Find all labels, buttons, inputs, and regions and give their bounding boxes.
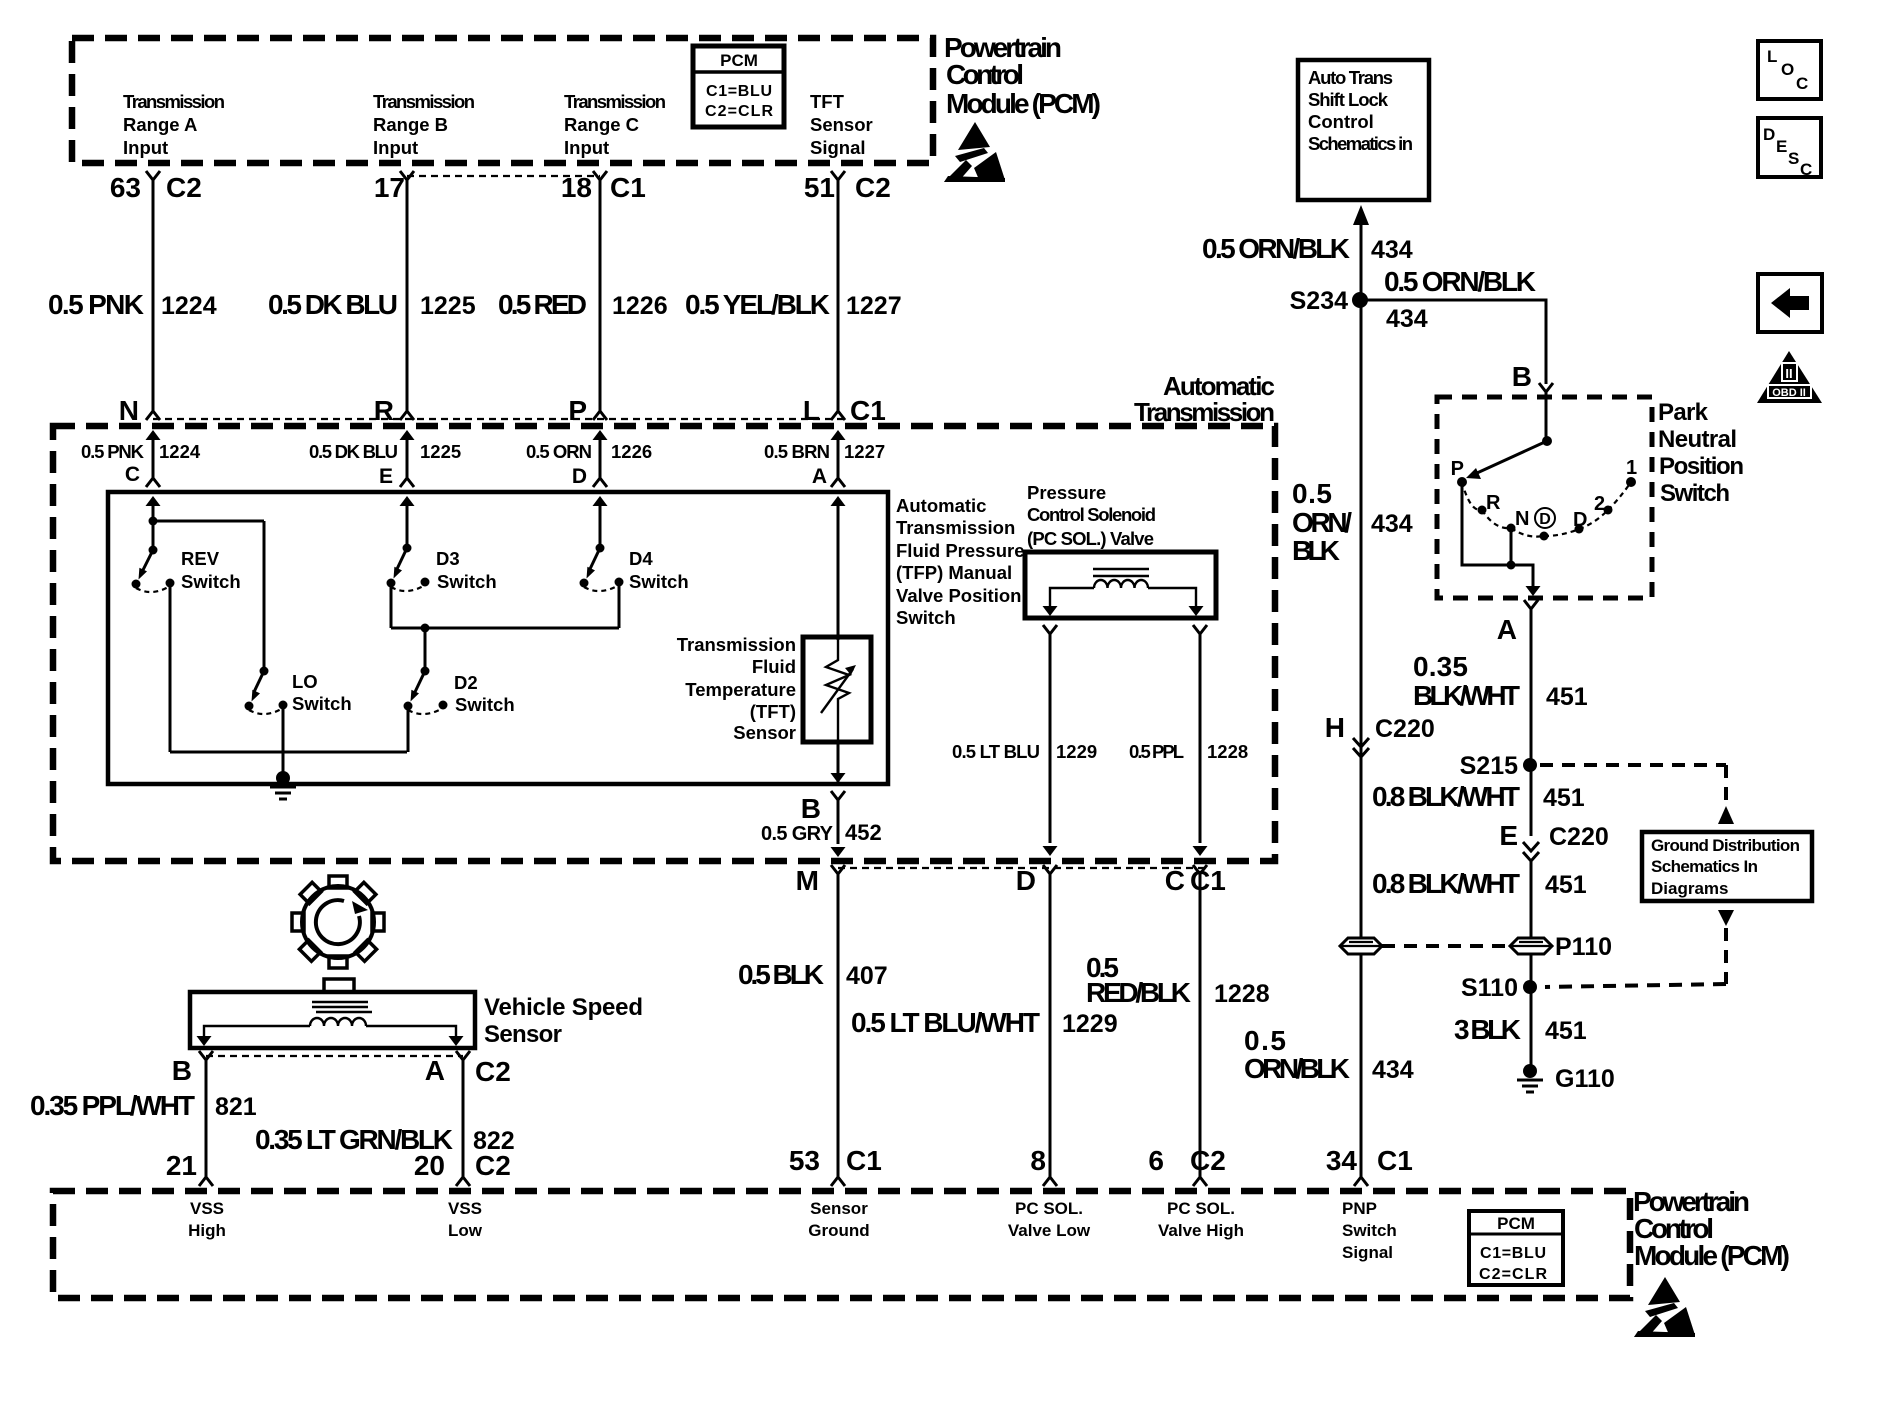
svg-text:Transmission: Transmission — [373, 91, 475, 112]
svg-text:1228: 1228 — [1207, 741, 1248, 762]
svg-text:Control: Control — [1308, 111, 1374, 132]
svg-text:B: B — [801, 793, 821, 824]
svg-text:0.5 BLK: 0.5 BLK — [738, 959, 824, 990]
svg-text:0.5 DK BLU: 0.5 DK BLU — [309, 441, 398, 462]
svg-text:0.5 ORN: 0.5 ORN — [526, 441, 592, 462]
svg-text:34: 34 — [1326, 1145, 1358, 1176]
svg-text:A: A — [425, 1055, 445, 1086]
svg-text:PCM: PCM — [1497, 1214, 1535, 1233]
svg-text:D: D — [1763, 125, 1775, 144]
svg-text:451: 451 — [1546, 683, 1588, 711]
svg-text:Neutral: Neutral — [1658, 426, 1737, 453]
svg-text:2: 2 — [1594, 493, 1605, 515]
svg-text:1226: 1226 — [612, 292, 668, 320]
svg-text:1225: 1225 — [420, 292, 476, 320]
svg-text:BLK: BLK — [1292, 535, 1340, 566]
svg-text:PC SOL.: PC SOL. — [1167, 1199, 1235, 1218]
svg-text:ORN/BLK: ORN/BLK — [1244, 1053, 1350, 1084]
svg-text:1: 1 — [1626, 457, 1637, 479]
svg-text:0.5 DK BLU: 0.5 DK BLU — [268, 289, 398, 320]
svg-text:0.5 GRY: 0.5 GRY — [761, 823, 834, 845]
svg-text:0.8 BLK/WHT: 0.8 BLK/WHT — [1372, 868, 1520, 899]
svg-text:C2=CLR: C2=CLR — [705, 103, 773, 120]
svg-text:High: High — [188, 1221, 226, 1240]
svg-text:C220: C220 — [1375, 715, 1435, 743]
svg-text:1226: 1226 — [611, 441, 652, 462]
svg-text:Schematics In: Schematics In — [1651, 857, 1758, 876]
svg-text:Transmission: Transmission — [896, 517, 1015, 538]
svg-text:0.5: 0.5 — [1244, 1025, 1286, 1056]
svg-text:PCM: PCM — [720, 51, 758, 70]
svg-text:D2: D2 — [454, 672, 478, 693]
svg-text:Input: Input — [123, 137, 168, 158]
svg-text:Shift Lock: Shift Lock — [1308, 89, 1389, 110]
svg-text:1227: 1227 — [846, 292, 902, 320]
svg-text:BLK/WHT: BLK/WHT — [1413, 680, 1520, 711]
svg-text:0.5 LT BLU/WHT: 0.5 LT BLU/WHT — [851, 1007, 1040, 1038]
svg-text:D: D — [1016, 865, 1036, 896]
svg-text:C2: C2 — [1190, 1145, 1226, 1176]
svg-text:PNP: PNP — [1342, 1199, 1377, 1218]
svg-text:434: 434 — [1371, 510, 1413, 538]
svg-text:C: C — [1796, 74, 1808, 93]
svg-text:B: B — [1512, 361, 1532, 392]
svg-text:451: 451 — [1545, 871, 1587, 899]
svg-text:407: 407 — [846, 962, 888, 990]
svg-text:451: 451 — [1543, 784, 1585, 812]
svg-text:II: II — [1785, 366, 1792, 381]
svg-text:D: D — [1539, 511, 1551, 528]
svg-text:451: 451 — [1545, 1017, 1587, 1045]
svg-text:Input: Input — [373, 137, 418, 158]
svg-text:Fluid: Fluid — [752, 656, 796, 677]
svg-text:Auto Trans: Auto Trans — [1308, 67, 1393, 88]
svg-text:(TFT): (TFT) — [750, 701, 796, 722]
svg-text:Ground: Ground — [808, 1221, 869, 1240]
svg-text:Sensor: Sensor — [484, 1021, 562, 1048]
svg-text:Vehicle Speed: Vehicle Speed — [484, 994, 643, 1021]
svg-text:RED/BLK: RED/BLK — [1086, 977, 1191, 1008]
svg-text:C1=BLU: C1=BLU — [1480, 1245, 1546, 1262]
svg-text:C2: C2 — [475, 1150, 511, 1181]
svg-text:Signal: Signal — [810, 137, 866, 158]
svg-text:P: P — [1451, 458, 1464, 480]
svg-text:C: C — [1800, 160, 1812, 179]
svg-text:N: N — [119, 395, 139, 426]
svg-text:0.35: 0.35 — [1413, 651, 1468, 682]
svg-text:D3: D3 — [436, 548, 460, 569]
svg-text:E: E — [379, 465, 393, 488]
svg-text:Switch: Switch — [896, 607, 956, 628]
svg-text:0.5 RED: 0.5 RED — [498, 289, 587, 320]
svg-text:Sensor: Sensor — [733, 722, 796, 743]
svg-text:C2: C2 — [855, 172, 891, 203]
svg-text:63: 63 — [110, 172, 141, 203]
svg-text:R: R — [374, 395, 394, 426]
svg-text:Switch: Switch — [292, 693, 352, 714]
svg-text:434: 434 — [1386, 305, 1428, 333]
svg-text:S: S — [1788, 149, 1799, 168]
svg-text:434: 434 — [1371, 236, 1413, 264]
svg-text:C1: C1 — [1377, 1145, 1413, 1176]
svg-text:Valve High: Valve High — [1158, 1221, 1244, 1240]
svg-text:C2=CLR: C2=CLR — [1479, 1266, 1547, 1283]
svg-text:Range A: Range A — [123, 114, 197, 135]
svg-text:Automatic: Automatic — [896, 495, 986, 516]
svg-text:0.5 YEL/BLK: 0.5 YEL/BLK — [685, 289, 830, 320]
svg-text:P110: P110 — [1555, 933, 1612, 961]
svg-text:6: 6 — [1148, 1145, 1164, 1176]
svg-text:18: 18 — [561, 172, 592, 203]
svg-text:0.5 PNK: 0.5 PNK — [81, 441, 145, 462]
svg-text:Range C: Range C — [564, 114, 639, 135]
svg-text:Switch: Switch — [437, 571, 497, 592]
svg-text:Range B: Range B — [373, 114, 448, 135]
svg-text:17: 17 — [374, 172, 405, 203]
svg-text:Module (PCM): Module (PCM) — [946, 88, 1101, 119]
svg-text:L: L — [803, 395, 820, 426]
svg-text:Switch: Switch — [181, 571, 241, 592]
svg-text:Switch: Switch — [629, 571, 689, 592]
svg-text:C220: C220 — [1549, 823, 1609, 851]
svg-text:452: 452 — [845, 820, 882, 845]
svg-text:D4: D4 — [629, 548, 653, 569]
svg-text:M: M — [796, 865, 819, 896]
svg-text:434: 434 — [1372, 1056, 1414, 1084]
svg-text:3 BLK: 3 BLK — [1454, 1014, 1521, 1045]
svg-text:L: L — [1767, 47, 1777, 66]
svg-text:ORN/: ORN/ — [1292, 507, 1352, 538]
svg-text:Sensor: Sensor — [810, 1199, 868, 1218]
svg-text:Transmission: Transmission — [123, 91, 225, 112]
svg-text:Control: Control — [946, 59, 1024, 90]
svg-text:1229: 1229 — [1062, 1010, 1118, 1038]
svg-text:1228: 1228 — [1214, 980, 1270, 1008]
svg-text:21: 21 — [166, 1150, 197, 1181]
svg-text:53: 53 — [789, 1145, 820, 1176]
svg-text:Sensor: Sensor — [810, 114, 873, 135]
svg-text:D: D — [1573, 509, 1587, 531]
svg-text:Switch: Switch — [455, 694, 515, 715]
svg-text:0.8 BLK/WHT: 0.8 BLK/WHT — [1372, 781, 1520, 812]
svg-text:R: R — [1486, 492, 1501, 514]
svg-text:Low: Low — [448, 1221, 483, 1240]
svg-text:A: A — [1497, 614, 1517, 645]
svg-text:Input: Input — [564, 137, 609, 158]
svg-text:Ground Distribution: Ground Distribution — [1651, 836, 1800, 855]
svg-text:C1: C1 — [610, 172, 646, 203]
svg-text:Diagrams: Diagrams — [1651, 879, 1728, 898]
svg-text:Module (PCM): Module (PCM) — [1634, 1240, 1790, 1271]
svg-text:VSS: VSS — [190, 1199, 224, 1218]
svg-text:Fluid Pressure: Fluid Pressure — [896, 540, 1025, 561]
svg-text:LO: LO — [292, 671, 318, 692]
svg-text:Temperature: Temperature — [685, 679, 796, 700]
svg-text:C1: C1 — [1190, 865, 1226, 896]
svg-text:C1: C1 — [850, 395, 886, 426]
svg-text:20: 20 — [414, 1150, 445, 1181]
svg-text:(PC SOL.) Valve: (PC SOL.) Valve — [1027, 528, 1154, 549]
svg-text:G110: G110 — [1555, 1065, 1615, 1093]
svg-text:0.5 ORN/BLK: 0.5 ORN/BLK — [1202, 233, 1350, 264]
svg-text:1229: 1229 — [1056, 741, 1097, 762]
svg-text:P: P — [568, 395, 587, 426]
svg-text:0.5 BRN: 0.5 BRN — [764, 441, 830, 462]
svg-text:S234: S234 — [1290, 287, 1348, 315]
svg-text:A: A — [812, 465, 827, 488]
svg-text:Schematics in: Schematics in — [1308, 133, 1413, 154]
svg-text:REV: REV — [181, 548, 220, 569]
svg-text:S215: S215 — [1460, 752, 1518, 780]
svg-text:VSS: VSS — [448, 1199, 482, 1218]
svg-text:1225: 1225 — [420, 441, 461, 462]
svg-text:Control Solenoid: Control Solenoid — [1027, 504, 1156, 525]
svg-text:PC SOL.: PC SOL. — [1015, 1199, 1083, 1218]
svg-text:Switch: Switch — [1342, 1221, 1397, 1240]
svg-text:1224: 1224 — [159, 441, 201, 462]
svg-text:Transmission: Transmission — [677, 634, 796, 655]
svg-text:821: 821 — [215, 1093, 257, 1121]
svg-text:C: C — [125, 463, 140, 486]
svg-text:Transmission: Transmission — [1134, 397, 1275, 427]
svg-text:51: 51 — [804, 172, 835, 203]
svg-text:C1=BLU: C1=BLU — [706, 83, 772, 100]
svg-text:C2: C2 — [475, 1056, 511, 1087]
svg-text:0.5 PPL: 0.5 PPL — [1129, 741, 1184, 762]
svg-text:Position: Position — [1659, 453, 1744, 480]
svg-text:Valve Low: Valve Low — [1008, 1221, 1091, 1240]
svg-text:(TFP) Manual: (TFP) Manual — [896, 562, 1012, 583]
svg-text:1227: 1227 — [844, 441, 885, 462]
svg-text:Park: Park — [1658, 399, 1709, 426]
svg-text:D: D — [572, 465, 587, 488]
svg-text:8: 8 — [1030, 1145, 1046, 1176]
svg-text:0.5 PNK: 0.5 PNK — [48, 289, 144, 320]
svg-text:Pressure: Pressure — [1027, 482, 1106, 503]
svg-text:C2: C2 — [166, 172, 202, 203]
svg-text:Switch: Switch — [1660, 480, 1730, 507]
svg-text:0.5 ORN/BLK: 0.5 ORN/BLK — [1384, 266, 1536, 297]
svg-text:B: B — [172, 1055, 192, 1086]
svg-text:C: C — [1165, 865, 1185, 896]
svg-text:1224: 1224 — [161, 292, 217, 320]
svg-text:OBD II: OBD II — [1772, 387, 1806, 399]
svg-text:0.5 LT BLU: 0.5 LT BLU — [952, 741, 1040, 762]
svg-text:S110: S110 — [1461, 974, 1518, 1002]
svg-text:C1: C1 — [846, 1145, 882, 1176]
svg-text:TFT: TFT — [810, 91, 845, 112]
svg-text:0.5: 0.5 — [1292, 478, 1332, 509]
svg-text:O: O — [1781, 60, 1794, 79]
svg-text:0.35 PPL/WHT: 0.35 PPL/WHT — [30, 1090, 195, 1121]
svg-text:Valve Position: Valve Position — [896, 585, 1021, 606]
svg-text:E: E — [1776, 137, 1787, 156]
svg-text:E: E — [1499, 820, 1518, 851]
svg-text:N: N — [1515, 508, 1529, 530]
svg-text:Transmission: Transmission — [564, 91, 666, 112]
svg-text:H: H — [1325, 712, 1345, 743]
svg-text:Signal: Signal — [1342, 1243, 1393, 1262]
